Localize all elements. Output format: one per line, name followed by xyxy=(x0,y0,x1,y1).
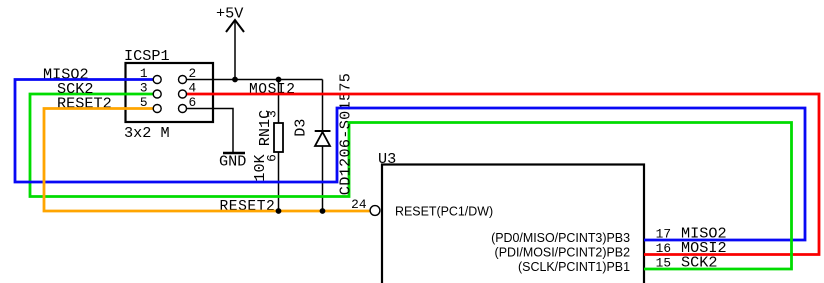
svg-text:4: 4 xyxy=(189,81,197,96)
IC U3 body xyxy=(382,165,644,283)
connector pin 5 circle xyxy=(153,105,161,113)
diode D3 cathode bar xyxy=(315,130,331,132)
svg-text:3: 3 xyxy=(140,81,148,96)
wire MOSI2 (red net) xyxy=(187,94,820,255)
connector pin 2 circle xyxy=(179,76,187,84)
svg-text:GND: GND xyxy=(219,153,246,171)
svg-text:(SCLK/PCINT1)PB1: (SCLK/PCINT1)PB1 xyxy=(518,260,630,274)
junction on RESET2 wire at resistor xyxy=(276,208,282,214)
svg-text:ICSP1: ICSP1 xyxy=(124,47,170,65)
junction on RESET2 wire at diode xyxy=(320,208,326,214)
diode D3 bottom lead xyxy=(322,146,324,211)
svg-text:5: 5 xyxy=(140,95,148,110)
wire SCK2 green segment A (connector to corner) xyxy=(30,94,349,197)
svg-text:MOSI2: MOSI2 xyxy=(249,82,296,98)
connector pin 1 circle xyxy=(153,76,161,84)
svg-text:3x2 M: 3x2 M xyxy=(124,124,170,142)
svg-text:(PD0/MISO/PCINT3)PB3: (PD0/MISO/PCINT3)PB3 xyxy=(491,231,630,245)
svg-text:3: 3 xyxy=(265,110,280,118)
svg-text:RESET2: RESET2 xyxy=(220,199,276,215)
connector pin 4 circle xyxy=(179,90,187,98)
svg-text:(PDI/MOSI/PCINT2)PB2: (PDI/MOSI/PCINT2)PB2 xyxy=(495,246,631,260)
svg-text:D3: D3 xyxy=(292,119,310,137)
svg-text:6: 6 xyxy=(265,154,280,162)
connector pin 6 circle xyxy=(179,105,187,113)
ground symbol xyxy=(223,152,245,155)
svg-text:CD1206-S01575: CD1206-S01575 xyxy=(337,73,355,195)
resistor RN1C body xyxy=(274,123,283,152)
wire +5V vertical xyxy=(234,20,236,80)
wire MISO2 (blue net) xyxy=(15,80,805,241)
resistor RN1C top lead xyxy=(278,80,280,124)
diode D3 triangle xyxy=(315,132,330,146)
wire SCK2 green segment B (corner to U3 pin 15) xyxy=(349,123,792,270)
wire pin2 to +5V / resistor / diode (black) xyxy=(187,79,323,81)
svg-text:RESET(PC1/DW): RESET(PC1/DW) xyxy=(395,205,493,219)
svg-text:6: 6 xyxy=(189,95,197,110)
svg-text:+5V: +5V xyxy=(216,5,244,23)
junction on pin2 wire at +5V xyxy=(232,77,238,83)
junction on pin2 wire at resistor xyxy=(276,77,282,83)
svg-text:U3: U3 xyxy=(378,150,396,168)
pin 24 inverted circle xyxy=(370,206,380,216)
wire RESET2 (orange net) xyxy=(44,109,370,212)
wire pin6 to GND xyxy=(187,109,234,153)
connector ICSP1 body xyxy=(126,63,214,122)
svg-text:1: 1 xyxy=(140,66,148,81)
resistor RN1C bottom lead xyxy=(278,152,280,211)
power symbol +5V arrow xyxy=(226,20,244,32)
svg-text:2: 2 xyxy=(189,66,197,81)
connector pin 3 circle xyxy=(153,90,161,98)
diode D3 top lead xyxy=(322,80,324,132)
